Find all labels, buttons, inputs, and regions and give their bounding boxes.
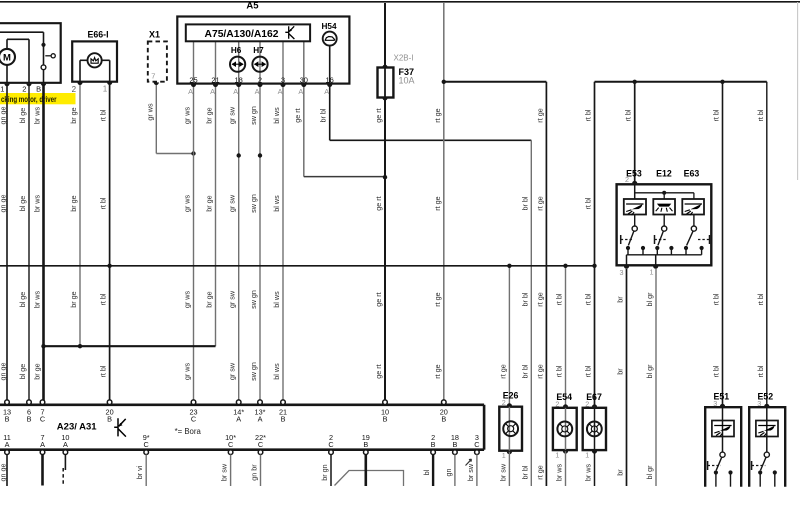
svg-text:bl ge: bl ge	[18, 196, 27, 212]
svg-text:1: 1	[502, 451, 506, 460]
svg-text:rt ge: rt ge	[498, 364, 507, 378]
svg-text:rt ge: rt ge	[535, 196, 544, 210]
svg-text:bl ws: bl ws	[272, 291, 281, 308]
svg-text:ge rt: ge rt	[374, 292, 383, 306]
svg-text:2: 2	[258, 75, 262, 84]
svg-text:1: 1	[585, 451, 589, 460]
svg-text:gr ws: gr ws	[183, 195, 192, 213]
svg-text:bl gr: bl gr	[645, 292, 654, 307]
svg-text:3: 3	[281, 75, 285, 84]
svg-text:A75/A130/A162: A75/A130/A162	[205, 29, 279, 40]
svg-text:1: 1	[650, 268, 654, 277]
svg-text:sw gn: sw gn	[249, 290, 258, 309]
svg-text:H6: H6	[231, 46, 242, 55]
svg-text:B: B	[441, 414, 446, 423]
svg-text:gn ge: gn ge	[0, 464, 7, 482]
svg-text:rt bl: rt bl	[712, 293, 721, 305]
svg-text:rt bl: rt bl	[756, 293, 765, 305]
svg-text:br ws: br ws	[584, 464, 593, 482]
svg-text:E54: E54	[556, 392, 572, 402]
svg-text:br ws: br ws	[555, 464, 564, 482]
svg-text:B: B	[27, 414, 32, 423]
svg-text:A: A	[255, 87, 260, 96]
svg-text:ge rt: ge rt	[374, 196, 383, 210]
svg-text:gr ws: gr ws	[183, 291, 192, 309]
svg-text:bl ge: bl ge	[18, 108, 27, 124]
svg-text:B: B	[281, 414, 286, 423]
svg-text:bl: bl	[422, 469, 431, 475]
svg-text:10A: 10A	[399, 76, 415, 86]
svg-text:X2B-I: X2B-I	[394, 54, 414, 63]
svg-text:2: 2	[72, 85, 77, 94]
svg-text:25: 25	[189, 75, 197, 84]
svg-text:br: br	[616, 296, 625, 303]
svg-text:rt bl: rt bl	[99, 197, 108, 209]
svg-text:A: A	[233, 87, 238, 96]
svg-text:A: A	[40, 440, 45, 449]
svg-text:B: B	[5, 414, 10, 423]
svg-text:br bl: br bl	[520, 465, 529, 479]
svg-text:2: 2	[625, 175, 629, 184]
svg-text:C: C	[40, 414, 45, 423]
svg-text:rt ge: rt ge	[535, 364, 544, 378]
svg-text:br ws: br ws	[33, 291, 42, 309]
svg-text:H7: H7	[253, 46, 264, 55]
svg-text:H54: H54	[321, 22, 336, 31]
svg-text:rt ge: rt ge	[535, 465, 544, 479]
svg-text:sw gn: sw gn	[249, 194, 258, 213]
svg-text:rt bl: rt bl	[555, 365, 564, 377]
svg-text:ge rt: ge rt	[374, 364, 383, 378]
svg-text:rt ge: rt ge	[433, 292, 442, 306]
svg-text:br: br	[616, 368, 625, 375]
svg-text:C: C	[144, 440, 149, 449]
svg-text:B: B	[363, 440, 368, 449]
svg-text:bl ge: bl ge	[18, 292, 27, 308]
svg-text:br ge: br ge	[69, 107, 78, 123]
svg-text:16: 16	[326, 75, 334, 84]
svg-text:A5: A5	[246, 1, 259, 12]
svg-text:gn: gn	[444, 469, 453, 477]
svg-text:rt bl: rt bl	[99, 365, 108, 377]
svg-text:br sw: br sw	[498, 463, 507, 481]
svg-text:E12: E12	[656, 168, 672, 178]
svg-text:rt ge: rt ge	[535, 292, 544, 306]
svg-text:B: B	[107, 414, 112, 423]
svg-text:rt ge: rt ge	[433, 196, 442, 210]
svg-text:br ge: br ge	[33, 363, 42, 379]
svg-text:A23/ A31: A23/ A31	[57, 422, 97, 433]
svg-text:B: B	[452, 440, 457, 449]
svg-text:rt bl: rt bl	[712, 365, 721, 377]
svg-text:ge rt: ge rt	[293, 108, 302, 122]
svg-text:ge rt: ge rt	[374, 108, 383, 122]
svg-text:br bl: br bl	[319, 108, 328, 122]
svg-text:1: 1	[103, 85, 108, 94]
svg-text:br ws: br ws	[33, 195, 42, 213]
svg-text:rt bl: rt bl	[99, 293, 108, 305]
svg-text:bl ws: bl ws	[272, 195, 281, 212]
svg-text:rt bl: rt bl	[99, 109, 108, 121]
svg-text:br bl: br bl	[520, 292, 529, 306]
svg-text:bl ge: bl ge	[18, 364, 27, 380]
svg-text:C: C	[258, 440, 263, 449]
svg-text:gr sw: gr sw	[228, 290, 237, 308]
svg-text:3: 3	[757, 399, 761, 408]
svg-text:rt bl: rt bl	[584, 293, 593, 305]
svg-text:E63: E63	[684, 168, 700, 178]
svg-text:gr sw: gr sw	[228, 106, 237, 124]
svg-text:rt bl: rt bl	[712, 109, 721, 121]
svg-text:7: 7	[151, 72, 155, 81]
svg-text:A: A	[278, 87, 283, 96]
svg-text:br sw: br sw	[220, 463, 229, 481]
svg-text:A: A	[324, 87, 329, 96]
svg-text:br ge: br ge	[69, 195, 78, 211]
svg-text:A: A	[298, 87, 303, 96]
svg-text:gr ws: gr ws	[145, 103, 154, 121]
svg-text:X1: X1	[149, 29, 160, 39]
svg-text:gr sw: gr sw	[228, 194, 237, 212]
svg-text:rt ge: rt ge	[535, 108, 544, 122]
svg-text:br bl: br bl	[520, 196, 529, 210]
svg-text:br ge: br ge	[205, 195, 214, 211]
svg-text:E67: E67	[586, 392, 602, 402]
svg-text:bl gr: bl gr	[645, 364, 654, 379]
svg-text:bl ws: bl ws	[272, 107, 281, 124]
svg-text:A: A	[258, 414, 263, 423]
svg-text:3: 3	[620, 268, 624, 277]
svg-text:C: C	[474, 440, 479, 449]
svg-text:gr ws: gr ws	[183, 363, 192, 381]
svg-text:3: 3	[713, 399, 717, 408]
svg-text:A: A	[236, 414, 241, 423]
svg-text:gr ws: gr ws	[183, 107, 192, 125]
svg-text:rt bl: rt bl	[584, 197, 593, 209]
svg-text:gn ge: gn ge	[0, 195, 7, 213]
svg-text:rt ge: rt ge	[433, 364, 442, 378]
svg-text:sw gn: sw gn	[249, 106, 258, 125]
svg-text:br ge: br ge	[205, 107, 214, 123]
svg-text:1: 1	[0, 85, 4, 94]
svg-text:*= Bora: *= Bora	[175, 427, 202, 436]
svg-text:sw gn: sw gn	[249, 362, 258, 381]
svg-text:br sw: br sw	[466, 463, 475, 481]
svg-text:bl ws: bl ws	[272, 363, 281, 380]
svg-text:bl gr: bl gr	[645, 465, 654, 480]
svg-text:E66-I: E66-I	[88, 29, 109, 39]
svg-text:gn ge: gn ge	[0, 107, 7, 125]
svg-text:B: B	[36, 85, 41, 94]
svg-text:br bl: br bl	[520, 364, 529, 378]
svg-text:rt bl: rt bl	[584, 109, 593, 121]
svg-text:br ge: br ge	[69, 291, 78, 307]
svg-text:C: C	[228, 440, 233, 449]
svg-text:br ws: br ws	[33, 107, 42, 125]
svg-text:rt bl: rt bl	[756, 365, 765, 377]
svg-text:30: 30	[300, 75, 308, 84]
svg-text:br gn: br gn	[320, 464, 329, 480]
svg-text:A: A	[188, 87, 193, 96]
svg-text:18: 18	[235, 75, 243, 84]
svg-text:A: A	[210, 87, 215, 96]
svg-text:C: C	[191, 414, 196, 423]
svg-text:21: 21	[211, 75, 219, 84]
svg-text:A: A	[63, 440, 68, 449]
svg-text:gn br: gn br	[250, 464, 259, 481]
svg-text:rt bl: rt bl	[555, 293, 564, 305]
svg-text:rt bl: rt bl	[584, 365, 593, 377]
svg-text:1: 1	[555, 451, 559, 460]
svg-text:br: br	[616, 469, 625, 476]
svg-text:M: M	[3, 52, 11, 63]
svg-text:rt ge: rt ge	[433, 108, 442, 122]
svg-text:br vi: br vi	[135, 465, 144, 479]
svg-text:rt bl: rt bl	[624, 109, 633, 121]
svg-text:B: B	[431, 440, 436, 449]
svg-text:2: 2	[22, 85, 26, 94]
svg-text:B: B	[383, 414, 388, 423]
svg-text:E26: E26	[503, 391, 519, 401]
svg-text:rt bl: rt bl	[756, 109, 765, 121]
svg-text:gr sw: gr sw	[228, 362, 237, 380]
svg-text:gn ge: gn ge	[0, 363, 7, 381]
svg-text:br ge: br ge	[205, 291, 214, 307]
svg-text:C: C	[328, 440, 333, 449]
svg-text:A: A	[5, 440, 10, 449]
